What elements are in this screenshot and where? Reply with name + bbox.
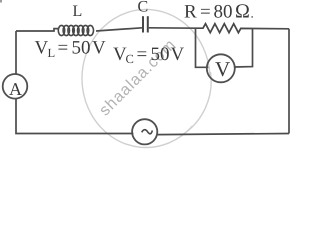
label R = 80 ohm <box>184 1 254 23</box>
voltmeter U (circle) <box>207 54 235 82</box>
svg-text:L: L <box>48 46 56 60</box>
svg-text:C: C <box>126 52 134 66</box>
svg-text:=: = <box>200 2 211 23</box>
wire: left side vertical (ammeter to top corner) <box>15 31 17 74</box>
wire: voltmeter branch left vertical <box>196 28 209 67</box>
scan speck top-left <box>0 0 2 3</box>
wire: voltmeter branch right vertical <box>235 29 253 68</box>
svg-text:V: V <box>171 44 185 65</box>
svg-text:50: 50 <box>151 44 170 65</box>
AC source <box>132 119 157 144</box>
label VC = 50 V <box>113 44 185 66</box>
resistor R <box>196 24 253 33</box>
svg-text:80: 80 <box>214 2 233 23</box>
svg-text:=: = <box>58 38 69 59</box>
inductor L <box>58 25 93 35</box>
svg-text:Ω: Ω <box>235 1 250 23</box>
svg-text:.: . <box>251 6 254 21</box>
svg-text:V: V <box>215 57 230 81</box>
ammeter A (circle) <box>3 74 28 99</box>
wire: bottom right (corner to source) <box>157 134 289 135</box>
svg-text:R: R <box>184 2 197 23</box>
label ~ (ac) <box>142 130 153 134</box>
svg-text:V: V <box>35 38 49 59</box>
capacitor C <box>143 16 148 32</box>
wire: capacitor to junction node <box>149 27 196 29</box>
svg-text:A: A <box>9 79 22 99</box>
svg-text:L: L <box>73 3 83 20</box>
wire: right side vertical <box>288 29 290 134</box>
svg-text:=: = <box>137 44 148 65</box>
wire: resistor to top-right corner <box>253 28 290 30</box>
watermark <box>82 9 211 147</box>
wire: inductor to capacitor <box>96 28 142 31</box>
wire: top-left horizontal (source to inductor) <box>16 29 58 31</box>
svg-text:50: 50 <box>72 38 91 59</box>
wire: bottom left (source to corner) <box>16 99 133 134</box>
svg-text:V: V <box>92 38 106 59</box>
svg-text:C: C <box>138 0 149 16</box>
label VL = 50 V <box>35 38 107 60</box>
